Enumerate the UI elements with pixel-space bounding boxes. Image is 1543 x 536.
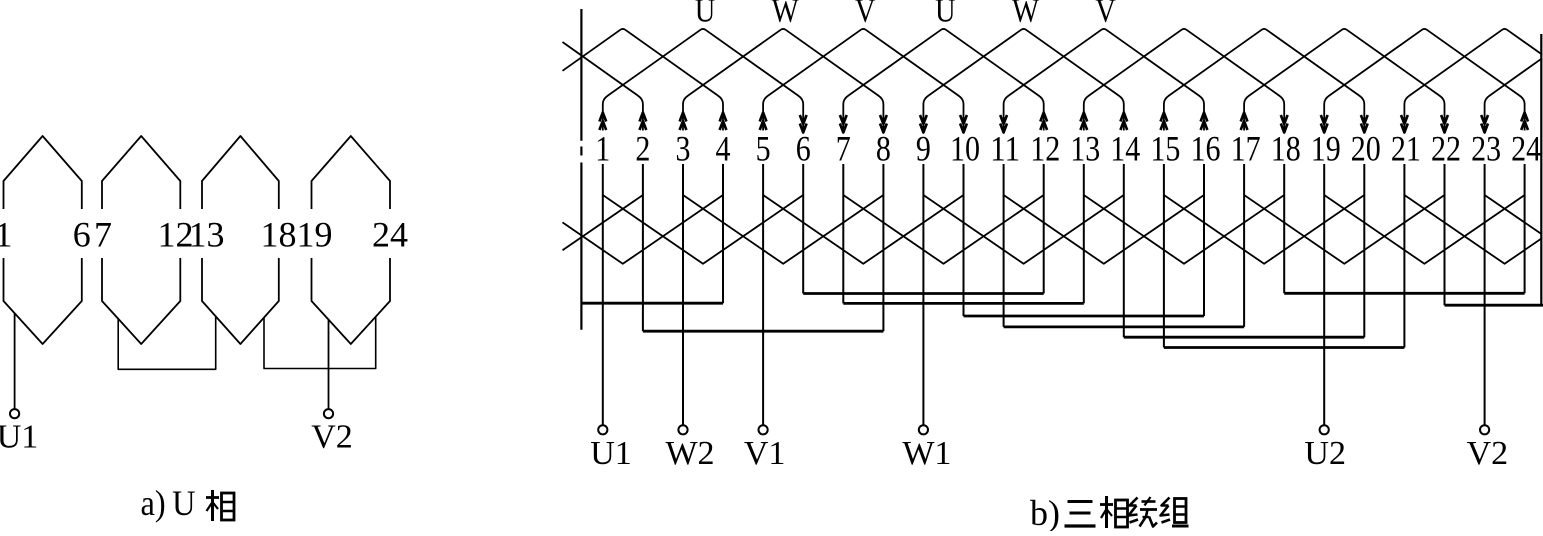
slot 3 lower conductor	[682, 164, 684, 425]
svg-text:7: 7	[94, 215, 112, 255]
coil 3-8 top end connection	[683, 29, 883, 133]
svg-text:18: 18	[261, 215, 297, 255]
svg-text:U1: U1	[590, 435, 632, 472]
coil 13-18 (U-phase coil 3, left diagram)	[202, 136, 279, 344]
jumper slot 10 to slot 16 (V phase)	[964, 315, 1205, 318]
jumper slot 2 to slot 8 (W phase)	[643, 330, 884, 333]
label U1 (left diagram)	[0, 419, 38, 456]
svg-text:12: 12	[1030, 129, 1060, 169]
coil 7-12 bottom end connection	[843, 195, 1043, 264]
svg-text:V: V	[855, 0, 876, 30]
slot 24 current arrow (up)	[1521, 113, 1528, 131]
jumper from slot 22 to right edge (V phase, wraps)	[1445, 304, 1543, 307]
wire jumper between coil 7-12 and coil 13-18	[118, 316, 216, 369]
coil 9-14 top end connection	[923, 29, 1123, 133]
svg-text:11: 11	[990, 129, 1020, 169]
right boundary line of winding diagram	[1540, 34, 1542, 305]
slot 3 current arrow (up)	[680, 113, 687, 131]
svg-text:22: 22	[1431, 129, 1461, 169]
slot 12 lower conductor	[1043, 164, 1045, 294]
label W1 (right diagram)	[902, 435, 951, 472]
svg-text:20: 20	[1351, 129, 1381, 169]
svg-text:V2: V2	[311, 419, 353, 456]
slot number labels 1,6,7,12,13,18,19,24	[0, 215, 408, 255]
svg-text:9: 9	[916, 129, 931, 169]
jumper slot 7 to slot 13 (U phase)	[843, 302, 1084, 305]
svg-text:V2: V2	[1467, 435, 1509, 472]
label U2 (right diagram)	[1304, 435, 1346, 472]
svg-text:13: 13	[189, 215, 225, 255]
slot 7 lower conductor	[842, 164, 844, 303]
coil 23-4 top end connection (right leg, cut at edge)	[1485, 58, 1542, 132]
coil 13-18 top end connection	[1084, 29, 1284, 133]
svg-text:3: 3	[676, 129, 691, 169]
slot 21 lower conductor	[1403, 164, 1405, 348]
slot 16 lower conductor	[1203, 164, 1205, 316]
svg-text:19: 19	[1311, 129, 1341, 169]
slot 11 lower conductor	[1003, 164, 1005, 327]
svg-text:6: 6	[73, 215, 91, 255]
coil 21-2 bottom end connection (right part, cut at edge)	[1404, 195, 1542, 264]
phase labels U W V U W V above coil peaks	[695, 0, 1117, 30]
svg-text:W1: W1	[902, 435, 951, 472]
left boundary line of winding diagram (with break)	[580, 9, 582, 330]
svg-text:13: 13	[1070, 129, 1100, 169]
coil 11-16 bottom end connection	[1004, 195, 1204, 264]
svg-text:24: 24	[372, 215, 408, 255]
coil 13-18 bottom end connection	[1084, 195, 1284, 264]
coil 9-14 bottom end connection	[923, 195, 1123, 264]
slot 15 current arrow (up)	[1161, 113, 1168, 131]
slot 20 lower conductor	[1363, 164, 1365, 337]
slot 5 lower conductor	[762, 164, 764, 425]
coil 15-20 bottom end connection	[1164, 195, 1364, 264]
slot 1 lower conductor	[602, 164, 604, 425]
slot 5 current arrow (up)	[760, 113, 767, 131]
coil 3-8 bottom end connection	[683, 195, 883, 264]
coil 19-24 (U-phase coil 4, left diagram)	[312, 136, 391, 344]
svg-text:2: 2	[635, 129, 650, 169]
jumper slot 18 to slot 24 (U phase)	[1284, 292, 1524, 295]
coil 1-6 bottom end connection	[603, 195, 803, 264]
svg-text:14: 14	[1110, 129, 1140, 169]
slot 4 current arrow (up)	[720, 113, 727, 131]
slot 17 current arrow (up)	[1241, 113, 1248, 131]
svg-text:V: V	[1095, 0, 1116, 30]
coil 17-22 top end connection	[1244, 29, 1444, 133]
slot 15 lower conductor	[1163, 164, 1165, 348]
slot 11 current arrow (down)	[1000, 115, 1007, 133]
svg-text:1: 1	[0, 215, 13, 255]
svg-text:7: 7	[836, 129, 851, 169]
svg-text:23: 23	[1471, 129, 1501, 169]
terminal lead U1 (left diagram)	[14, 313, 16, 409]
label V1 (right diagram)	[744, 435, 786, 472]
jumper to slot 4 (V phase, wrapped from slot 22)	[581, 302, 723, 305]
coil 23-4 bottom end connection (right leg, cut at edge)	[1485, 195, 1542, 234]
coil 7-12 top end connection	[843, 29, 1043, 133]
slot 9 current arrow (down)	[920, 115, 927, 133]
svg-text:W: W	[772, 0, 800, 30]
svg-text:5: 5	[756, 129, 771, 169]
svg-text:19: 19	[297, 215, 333, 255]
jumper slot 11 to slot 17 (V phase)	[1004, 325, 1245, 328]
slot 1 current arrow (up)	[599, 113, 606, 131]
svg-text:U: U	[695, 0, 716, 30]
slot 7 current arrow (down)	[840, 115, 847, 133]
slot 18 lower conductor	[1283, 164, 1285, 293]
svg-text:1: 1	[595, 129, 610, 169]
slot 4 lower conductor	[722, 164, 724, 303]
coil 5-10 bottom end connection	[763, 195, 963, 264]
coil 15-20 top end connection	[1164, 29, 1364, 133]
svg-text:W: W	[1012, 0, 1040, 30]
svg-text:4: 4	[716, 129, 731, 169]
svg-text:V1: V1	[744, 435, 786, 472]
svg-text:b): b)	[1030, 493, 1060, 531]
slot 2 lower conductor	[642, 164, 644, 331]
svg-text:U2: U2	[1304, 435, 1346, 472]
coil 19-24 top end connection	[1324, 29, 1524, 133]
label U1 (right diagram)	[590, 435, 632, 472]
svg-text:15: 15	[1150, 129, 1180, 169]
jumper slot 6 to slot 12 (U phase)	[803, 292, 1043, 295]
coil 21-2 top end connection (right part, cut at edge)	[1404, 29, 1542, 133]
terminal circle W1 (right diagram)	[919, 425, 928, 434]
coil 11-16 top end connection	[1004, 29, 1204, 133]
slot 2 current arrow (up)	[640, 113, 647, 131]
slot 18 current arrow (down)	[1281, 115, 1288, 133]
svg-text:U: U	[935, 0, 956, 30]
slot 23 current arrow (down)	[1481, 115, 1488, 133]
slot 13 lower conductor	[1083, 164, 1085, 303]
svg-text:6: 6	[796, 129, 811, 169]
coil 5-10 top end connection	[763, 29, 963, 133]
slot 24 lower conductor	[1524, 164, 1526, 293]
jumper slot 15 to slot 21 (W phase)	[1164, 346, 1405, 349]
terminal circle V2 (left diagram)	[324, 409, 333, 418]
svg-text:17: 17	[1231, 129, 1261, 169]
coil 23-4 bottom end connection (wrapped valley into slot 4)	[563, 195, 724, 264]
slot 13 current arrow (up)	[1080, 113, 1087, 131]
slot 6 lower conductor	[802, 164, 804, 294]
slot 23 lower conductor	[1484, 164, 1486, 425]
slot 10 lower conductor	[963, 164, 965, 316]
terminal circle V1 (right diagram)	[759, 425, 768, 434]
slot 20 current arrow (down)	[1361, 115, 1368, 133]
slot 17 lower conductor	[1243, 164, 1245, 327]
slot numbers 1-24	[595, 129, 1541, 169]
label V2 (right diagram)	[1467, 435, 1509, 472]
svg-text:8: 8	[876, 129, 891, 169]
terminal circle U2 (right diagram)	[1320, 425, 1329, 434]
caption b) san xiang rao zu	[1030, 493, 1189, 533]
svg-text:W2: W2	[665, 435, 714, 472]
coil 1-6 top end connection	[603, 29, 803, 133]
slot 22 current arrow (down)	[1441, 115, 1448, 133]
terminal circle U1 (left diagram)	[10, 409, 19, 418]
slot 8 lower conductor	[882, 164, 884, 331]
slot 16 current arrow (up)	[1201, 113, 1208, 131]
jumper slot 14 to slot 20 (W phase)	[1124, 336, 1365, 339]
svg-text:10: 10	[950, 129, 980, 169]
coil 23-4 top end connection (wrapped peak into slot 4)	[563, 29, 724, 131]
svg-text:24: 24	[1511, 129, 1541, 169]
slot 6 current arrow (down)	[800, 115, 807, 133]
svg-text:16: 16	[1191, 129, 1221, 169]
coil 7-12 (U-phase coil 2, left diagram)	[102, 136, 180, 344]
slot 8 current arrow (down)	[880, 115, 887, 133]
label V2 (left diagram)	[311, 419, 353, 456]
svg-text:21: 21	[1391, 129, 1421, 169]
coil 21-2 bottom end connection (wrapped stub into slot 2)	[563, 195, 643, 250]
slot 10 current arrow (down)	[960, 115, 967, 133]
wire jumper between coil 13-18 and coil 19-24	[264, 317, 376, 369]
slot 19 current arrow (down)	[1321, 115, 1328, 133]
slot 14 current arrow (up)	[1120, 113, 1127, 131]
slot 19 lower conductor	[1323, 164, 1325, 425]
slot 21 current arrow (down)	[1401, 115, 1408, 133]
terminal lead V2 (left diagram)	[328, 319, 330, 409]
label W2 (right diagram)	[665, 435, 714, 472]
slot 12 current arrow (up)	[1040, 113, 1047, 131]
caption a) U xiang	[141, 483, 235, 523]
svg-text:18: 18	[1271, 129, 1301, 169]
coil 19-24 bottom end connection	[1324, 195, 1524, 264]
terminal circle W2 (right diagram)	[678, 425, 687, 434]
svg-text:a) U: a) U	[141, 483, 196, 523]
slot 14 lower conductor	[1123, 164, 1125, 337]
slot 22 lower conductor	[1444, 164, 1446, 305]
coil 17-22 bottom end connection	[1244, 195, 1444, 264]
coil 21-2 top end connection (wrapped stub into slot 2)	[563, 42, 643, 131]
coil 1-6 (U-phase coil 1, left diagram)	[4, 136, 82, 344]
svg-text:U1: U1	[0, 419, 38, 456]
terminal circle U1 (right diagram)	[598, 425, 607, 434]
slot 9 lower conductor	[922, 164, 924, 425]
terminal circle V2 (right diagram)	[1480, 425, 1489, 434]
